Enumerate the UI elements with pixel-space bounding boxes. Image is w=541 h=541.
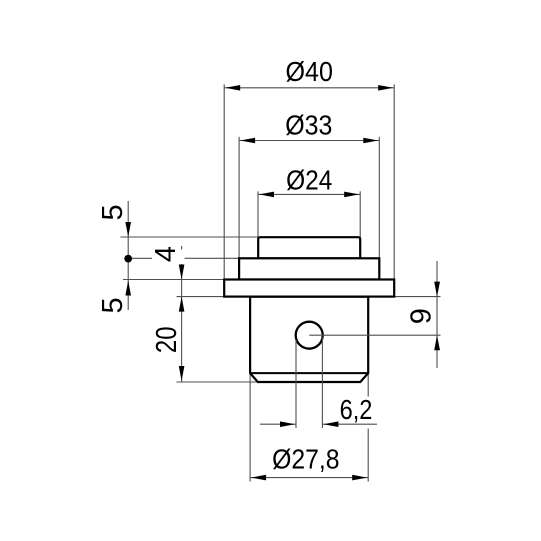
svg-text:9: 9 (405, 308, 437, 324)
node dot shared point (124, 255, 132, 263)
extension line hole right (321, 337, 323, 428)
extension line Ø24 right (359, 191, 361, 237)
extension line middle top left (128, 257, 240, 259)
middle disc Ø33 (239, 258, 379, 279)
hole Ø6,2 (296, 322, 323, 349)
extension line Ø33 right (378, 137, 380, 258)
flange Ø40 (224, 280, 394, 297)
part body Ø27,8 with chamfer (250, 297, 368, 382)
svg-text:5: 5 (97, 297, 129, 313)
svg-text:4: 4 (150, 246, 182, 262)
svg-text:6,2: 6,2 (340, 394, 373, 425)
extension line body bottom left (177, 381, 258, 383)
dimension 9 right (434, 261, 440, 368)
extension line Ø24 left (257, 191, 259, 237)
extension line flange bottom left (177, 296, 225, 298)
extension line Ø33 left (238, 137, 240, 258)
dimension 4 and 20 line (179, 246, 185, 382)
dimension Ø40 (224, 56, 394, 91)
extension line hole center right (309, 334, 440, 336)
extension line cap top left (121, 236, 259, 238)
svg-text:5: 5 (97, 204, 129, 220)
dimension Ø27,8 (250, 444, 368, 481)
chamfer edge line (250, 372, 368, 374)
label 4 (150, 246, 185, 264)
cap Ø24 (258, 237, 360, 258)
svg-text:Ø33: Ø33 (285, 110, 332, 141)
svg-text:Ø40: Ø40 (286, 56, 333, 87)
extension line Ø40 right (393, 84, 395, 279)
svg-text:20: 20 (151, 327, 183, 354)
extension line Ø27,8 left (249, 373, 251, 481)
extension line flange bottom right (394, 296, 440, 298)
extension line hole left (295, 340, 297, 428)
svg-text:Ø24: Ø24 (286, 165, 332, 196)
svg-text:Ø27,8: Ø27,8 (272, 444, 339, 475)
dimension 6,2 (260, 394, 378, 429)
dimension Ø33 (239, 110, 379, 144)
extension line flange top left (123, 279, 224, 281)
extension line Ø40 left (223, 84, 225, 279)
dimension chain 5/5 left (125, 201, 131, 310)
extension line Ø27,8 right (367, 373, 369, 481)
dimension Ø24 (258, 165, 360, 198)
